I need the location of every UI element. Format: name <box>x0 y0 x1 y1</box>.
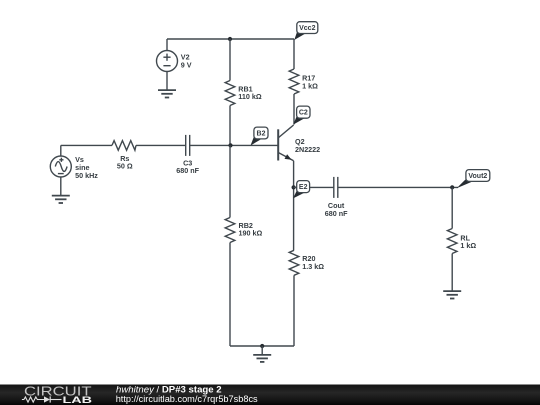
wire C3 to base <box>190 144 279 146</box>
wire V2 bottom lead <box>166 72 168 91</box>
wire Vs to Rs <box>61 144 112 146</box>
svg-text:680 nF: 680 nF <box>176 166 199 175</box>
svg-text:680 nF: 680 nF <box>325 209 348 218</box>
ground under RL <box>443 291 461 298</box>
resistor R20 <box>289 250 299 275</box>
wire Vcc2 corner down to R17 <box>293 39 295 69</box>
wire emitter down through E2 to R20 <box>293 161 295 251</box>
svg-text:LAB: LAB <box>63 395 93 405</box>
flag E2 <box>293 181 310 199</box>
label Vs sine 50 kHz <box>75 155 98 180</box>
wire RL to ground <box>451 254 453 292</box>
capacitor C3 <box>186 135 190 156</box>
transistor Q2 (NPN 2N2222) <box>278 125 293 161</box>
wire RB2 bottom down <box>229 243 231 347</box>
capacitor Cout <box>334 177 338 198</box>
ground bottom center <box>253 346 271 362</box>
label V2 9 V <box>181 53 192 70</box>
resistor RB1 <box>225 81 235 106</box>
label RB1 110 kOhm <box>238 84 262 101</box>
junction node E2 <box>292 185 296 189</box>
flag C2 <box>293 106 310 125</box>
svg-text:B2: B2 <box>257 131 266 138</box>
ground under V2 <box>158 90 176 97</box>
ground under Vs <box>52 196 70 203</box>
wire RB1 top lead <box>229 39 231 81</box>
wire Cout to Vout2 node <box>338 186 458 188</box>
flag Vout2 <box>457 170 490 189</box>
svg-text:Vcc2: Vcc2 <box>299 25 315 32</box>
resistor Rs <box>112 141 136 151</box>
svg-text:190 kΩ: 190 kΩ <box>239 229 263 238</box>
wire RB2 top lead <box>229 145 231 217</box>
label C3 680 nF <box>176 159 199 176</box>
source Vs (sine) <box>50 156 71 177</box>
wire Vout2 down to RL <box>451 187 453 228</box>
resistor RB2 <box>225 218 235 243</box>
svg-text:2N2222: 2N2222 <box>295 145 320 154</box>
junction ground node <box>260 344 264 348</box>
resistor RL <box>447 229 457 254</box>
wire Vs bottom lead <box>60 177 62 196</box>
svg-text:110 kΩ: 110 kΩ <box>238 92 262 101</box>
footer url <box>116 394 258 404</box>
junction base node B2 <box>228 143 232 147</box>
footer bar <box>0 385 540 405</box>
wire top rail V2 to Vcc2 corner <box>167 38 294 40</box>
flag Vcc2 <box>294 22 318 40</box>
label Q2 2N2222 <box>295 137 320 154</box>
svg-text:Vout2: Vout2 <box>468 173 487 180</box>
wire bottom left to ground node <box>230 345 262 347</box>
svg-text:C2: C2 <box>299 110 308 117</box>
svg-text:50 kHz: 50 kHz <box>75 171 98 180</box>
label R20 1.3 kOhm <box>302 254 324 271</box>
label R17 1 kOhm <box>302 74 318 91</box>
label Cout 680 nF <box>325 201 348 218</box>
svg-text:9 V: 9 V <box>181 60 192 69</box>
wire Vs top lead up <box>60 145 62 156</box>
flag B2 <box>251 127 269 145</box>
voltage source V2 <box>157 51 178 72</box>
wire Rs to C3 <box>136 144 186 146</box>
resistor R17 <box>289 69 299 94</box>
svg-text:E2: E2 <box>299 184 308 191</box>
footer title hwhitney / DP#3 stage 2 <box>116 385 222 396</box>
label RB2 190 kOhm <box>239 221 263 238</box>
wire E2 to Cout <box>294 186 334 188</box>
svg-text:http://circuitlab.com/c7rqr5b7: http://circuitlab.com/c7rqr5b7sb8cs <box>116 394 258 404</box>
wire R17 to collector terminal <box>293 94 295 125</box>
wire bottom right to ground node <box>262 345 294 347</box>
CircuitLab logo <box>22 384 93 405</box>
label RL 1 kOhm <box>460 233 476 250</box>
wire V2 top lead <box>166 39 168 51</box>
svg-text:1 kΩ: 1 kΩ <box>302 81 318 90</box>
svg-text:50 Ω: 50 Ω <box>117 162 133 171</box>
wire RB1 bottom to base node <box>229 106 231 146</box>
svg-text:1 kΩ: 1 kΩ <box>460 241 476 250</box>
wire R20 bottom down <box>293 275 295 346</box>
label Rs 50 Ohm <box>117 154 133 171</box>
junction node Vcc2 / RB1 top <box>228 37 232 41</box>
junction node Vout2 <box>450 185 454 189</box>
svg-text:1.3 kΩ: 1.3 kΩ <box>302 262 324 271</box>
